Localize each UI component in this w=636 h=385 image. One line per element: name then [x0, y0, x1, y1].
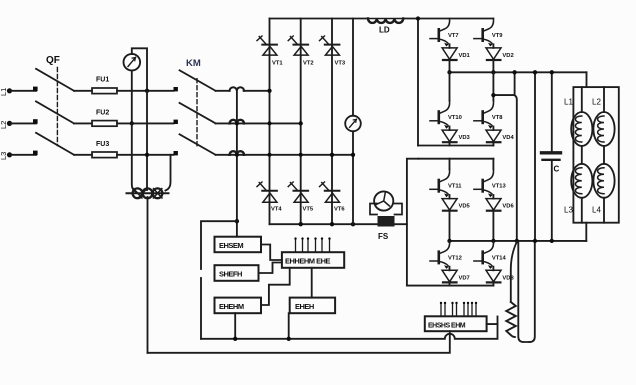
motor SRM frame — [573, 87, 618, 223]
svg-text:L1: L1 — [564, 98, 573, 107]
wire collector link — [493, 94, 514, 96]
block power supply — [290, 298, 335, 314]
node power bus1 — [287, 337, 291, 341]
wire phase3 to fuse — [74, 154, 92, 156]
breaker QF pole 3 — [33, 133, 74, 155]
wire phase1 to bridge — [244, 90, 270, 92]
svg-text:L3: L3 — [564, 206, 573, 215]
wire aux vertical — [534, 72, 536, 241]
diode VD3 — [442, 127, 470, 146]
svg-text:VD6: VD6 — [502, 204, 514, 210]
wire voltmeter top loop — [132, 48, 147, 91]
block current detection — [215, 237, 262, 253]
svg-text:VD2: VD2 — [502, 53, 513, 59]
voltmeter PV2 — [345, 116, 361, 132]
block drive circuit — [282, 252, 344, 268]
node CT cross phase2 — [235, 121, 239, 125]
svg-text:VT7: VT7 — [448, 33, 459, 39]
wire colA pair2 stub — [449, 72, 451, 100]
node phase3-colA cross — [268, 153, 272, 157]
node phase1-colA — [267, 89, 271, 93]
node meter line bottom — [351, 222, 355, 226]
wire pair4 return line — [407, 285, 494, 287]
svg-text:VT1: VT1 — [272, 61, 283, 67]
contactor KM pole 2 — [174, 103, 216, 124]
node CT cross phase3 — [235, 153, 239, 157]
node chopper top — [512, 70, 516, 74]
block speed given — [215, 265, 259, 281]
svg-text:FU1: FU1 — [96, 77, 109, 84]
svg-text:KM: KM — [186, 58, 201, 69]
wire voltmeter bottom — [131, 71, 133, 124]
wire top bus drop — [417, 19, 419, 146]
svg-text:VT8: VT8 — [492, 115, 503, 121]
winding L3 — [571, 146, 592, 223]
breaker QF pole 1 — [33, 69, 74, 91]
wire power block down — [288, 313, 290, 339]
node phase3 tap — [145, 153, 149, 157]
DC top bus — [270, 18, 369, 20]
node phase3-colC — [330, 153, 334, 157]
transistor VT14 — [474, 241, 507, 269]
transistor VT13 — [474, 159, 507, 198]
wire phase1 to fuse — [74, 90, 92, 92]
node phase3-colB cross — [299, 153, 303, 157]
wire phase2 to fuse — [74, 122, 92, 124]
wire block1 to drive — [261, 245, 282, 261]
svg-text:EHEHM: EHEHM — [219, 302, 244, 311]
node block3 bus1 — [233, 337, 237, 341]
node phase3 meter junction — [351, 153, 355, 157]
node colC bottom — [330, 222, 334, 226]
thyristor VT3 — [320, 36, 346, 67]
wire L1 stub — [10, 90, 36, 92]
svg-text:QF: QF — [46, 55, 60, 66]
node phase2 tap — [130, 121, 134, 125]
DC top bus right — [403, 18, 493, 20]
svg-text:L2: L2 — [0, 121, 8, 129]
svg-text:FS: FS — [378, 232, 389, 241]
wire L3 stub — [10, 154, 36, 156]
svg-text:EHSHS EHM: EHSHS EHM — [428, 323, 466, 330]
wire drive to power block — [311, 268, 313, 298]
position sensor leads — [440, 302, 477, 317]
diode VD7 — [442, 267, 470, 286]
resistor R braking — [506, 242, 517, 337]
node phase1 tap — [145, 89, 149, 93]
svg-text:VD7: VD7 — [459, 275, 470, 281]
wire phase1 fuse to KM — [117, 90, 174, 92]
wire pair4 feed line — [450, 240, 587, 242]
node collector link — [491, 93, 495, 97]
wire sync line C down — [166, 155, 171, 191]
svg-text:VD3: VD3 — [459, 135, 471, 141]
wire control common branch lower — [200, 278, 202, 339]
wire chopper down — [515, 95, 517, 241]
contactor KM linkage dashed — [196, 79, 198, 148]
fuse FU2 — [92, 110, 117, 127]
wire bus1 — [201, 324, 498, 339]
wire pair3 feed line — [419, 158, 494, 160]
wire transformer to bottom bus — [147, 197, 149, 353]
node pair4 left — [447, 239, 451, 243]
wire phase3 fuse to KM — [117, 154, 174, 156]
wire pair1 output line — [450, 71, 587, 73]
transistor VT10 — [430, 101, 462, 129]
node pair1 left — [447, 70, 451, 74]
svg-text:L2: L2 — [592, 98, 601, 107]
voltmeter PV2 line — [352, 19, 354, 116]
svg-text:VD1: VD1 — [459, 53, 471, 59]
wire L2 stub — [10, 122, 36, 124]
svg-text:VT9: VT9 — [492, 33, 503, 39]
wire CT signal down — [236, 91, 238, 237]
wire block2 to drive — [259, 263, 282, 274]
svg-text:L3: L3 — [0, 152, 8, 160]
fuse FU3 — [92, 141, 117, 158]
node L1 input terminal — [0, 88, 12, 96]
wire sensor stub — [497, 317, 499, 325]
thyristor VT2 — [288, 36, 313, 67]
diode VD4 — [486, 127, 514, 146]
svg-text:VT10: VT10 — [448, 115, 462, 121]
wire drive to block3 — [261, 268, 290, 305]
block position sensor — [425, 316, 487, 331]
svg-text:VT5: VT5 — [303, 207, 314, 213]
svg-text:EHEH: EHEH — [295, 302, 314, 311]
svg-text:VT6: VT6 — [334, 207, 345, 213]
wire phase3 KM to meter line — [216, 154, 353, 156]
diode VD8 — [486, 267, 514, 286]
wire sync line B down — [132, 123, 137, 192]
winding L4 — [593, 146, 614, 223]
node chopper mid — [515, 239, 519, 243]
rectifier column B — [300, 19, 302, 225]
DC bottom bus — [270, 223, 407, 225]
breaker QF pole 2 — [33, 101, 74, 123]
node aux bottom — [533, 239, 537, 243]
svg-text:VT3: VT3 — [335, 61, 346, 67]
svg-text:EHSEM: EHSEM — [219, 241, 243, 250]
transformer TS winding — [127, 188, 169, 198]
inductor LD — [368, 19, 403, 23]
svg-text:VD8: VD8 — [502, 275, 514, 281]
transistor VT7 — [430, 19, 459, 47]
winding L2 — [593, 87, 614, 146]
wire phase2 fuse to KM — [117, 122, 174, 124]
capacitor C — [542, 72, 561, 241]
gate leads of drive block — [294, 237, 330, 252]
svg-text:VT14: VT14 — [492, 255, 507, 261]
diode VD2 — [486, 44, 514, 72]
node L3 input terminal — [0, 152, 12, 160]
wire colB pair2 stub — [492, 72, 494, 100]
current transformer TA1 — [230, 87, 244, 91]
wire bus2 — [148, 331, 450, 353]
diode VD5 — [442, 195, 470, 241]
svg-text:VT13: VT13 — [492, 184, 507, 190]
node cap top — [550, 70, 554, 74]
wire phase1 KM to CT — [216, 90, 230, 92]
wire motor feed top — [586, 72, 588, 87]
thyristor VT1 — [257, 36, 283, 67]
node phase2-colA cross — [268, 121, 272, 125]
node pair1 right — [491, 70, 495, 74]
node CT branch corner — [235, 219, 239, 223]
transistor VT12 — [430, 241, 462, 269]
wire dump branch left — [518, 242, 529, 342]
current transformer TA2 — [230, 120, 244, 124]
svg-text:VD4: VD4 — [502, 135, 514, 141]
svg-text:C: C — [554, 165, 560, 174]
svg-text:L4: L4 — [592, 206, 601, 215]
svg-text:VT2: VT2 — [303, 61, 314, 67]
node top bus drop — [416, 16, 420, 20]
breaker QF linkage dashed — [56, 68, 58, 146]
svg-text:SHEFH: SHEFH — [219, 270, 242, 279]
node L2 input terminal — [0, 121, 12, 129]
wire chopper branch — [514, 72, 516, 95]
thyristor VT5 — [288, 182, 314, 213]
wire phase2 KM to bridge — [216, 122, 301, 124]
svg-text:L1: L1 — [0, 88, 8, 96]
svg-text:LD: LD — [379, 26, 390, 35]
wire pair2 bottom line — [418, 145, 493, 147]
svg-text:VT12: VT12 — [448, 255, 462, 261]
node cap bottom — [550, 239, 554, 243]
node pair4 right — [491, 239, 495, 243]
node aux top — [533, 70, 537, 74]
svg-text:VD5: VD5 — [459, 204, 471, 210]
current transformer TA3 — [230, 151, 244, 155]
fan FS — [370, 191, 402, 241]
wire PV2 to phase3 and bus — [352, 131, 354, 224]
rectifier column C — [331, 19, 333, 225]
wire motor return — [585, 223, 587, 241]
wire block3 down — [234, 313, 236, 339]
voltmeter PV1 — [124, 54, 141, 71]
diode VD6 — [486, 195, 514, 241]
wire negative rail riser — [407, 159, 419, 286]
svg-text:EHHEHM EHE: EHHEHM EHE — [285, 257, 331, 266]
wire control common branch — [201, 221, 237, 269]
diode VD1 — [442, 44, 470, 72]
transistor VT11 — [430, 159, 462, 198]
svg-text:FU2: FU2 — [96, 110, 109, 117]
winding L1 — [571, 87, 592, 146]
node phase2-colB — [299, 121, 303, 125]
thyristor VT4 — [257, 182, 282, 213]
contactor KM pole 3 — [174, 134, 216, 155]
transistor VT8 — [474, 101, 503, 129]
node colB bottom — [299, 222, 303, 226]
wire sync line A down — [146, 91, 148, 190]
thyristor VT6 — [320, 182, 346, 213]
fuse FU1 — [92, 77, 117, 94]
contactor KM pole 1 — [174, 70, 216, 91]
svg-text:VT11: VT11 — [448, 184, 462, 190]
rectifier column A — [269, 19, 271, 225]
wire dump branch right — [529, 242, 534, 342]
block controller — [215, 298, 262, 314]
svg-text:FU3: FU3 — [96, 141, 109, 148]
transistor VT9 — [474, 19, 503, 47]
svg-text:VT4: VT4 — [271, 207, 282, 213]
